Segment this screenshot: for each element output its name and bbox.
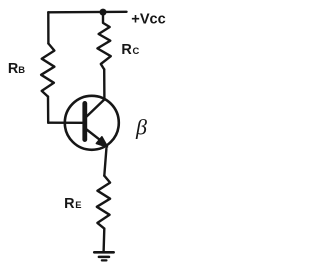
- ground: [94, 252, 113, 260]
- wire emitter down: [104, 149, 106, 176]
- node Vcc junction: [100, 9, 107, 16]
- wire RE bottom to ground: [102, 229, 105, 252]
- svg-text:R: R: [121, 42, 132, 58]
- transistor Q1: [65, 96, 119, 150]
- svg-text:β: β: [135, 115, 147, 140]
- wire RB bottom to base corner: [47, 97, 50, 123]
- wire collector lead: [103, 69, 106, 98]
- svg-text:B: B: [18, 64, 25, 75]
- resistor RE: [97, 176, 110, 229]
- svg-text:+Vcc: +Vcc: [131, 11, 166, 27]
- svg-text:E: E: [75, 199, 81, 210]
- resistor RB: [41, 44, 54, 97]
- wire base lead: [48, 121, 83, 124]
- resistor RC: [97, 15, 110, 70]
- svg-text:R: R: [64, 196, 75, 212]
- wire left drop from top rail to RB: [47, 12, 50, 43]
- svg-text:C: C: [133, 45, 140, 56]
- wire top rail: [48, 11, 126, 14]
